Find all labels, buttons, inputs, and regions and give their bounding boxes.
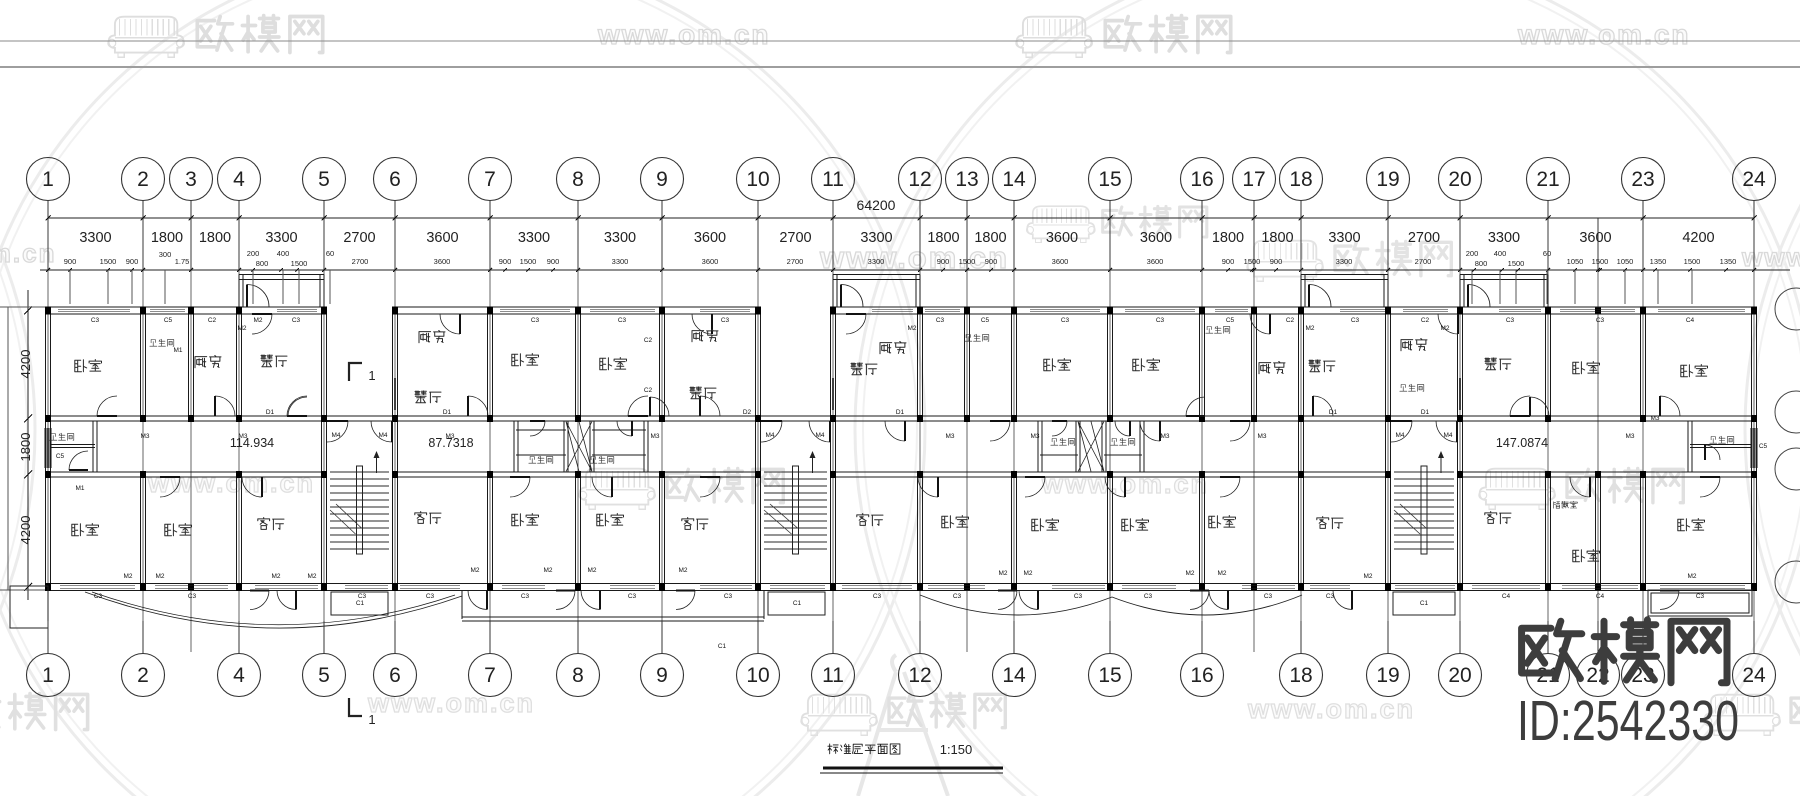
svg-text:C5: C5	[1226, 317, 1235, 324]
interior wall on grid 11	[830, 314, 832, 585]
room label 厨房	[1259, 362, 1285, 374]
svg-text:14: 14	[1002, 168, 1026, 191]
svg-text:6: 6	[389, 168, 401, 191]
svg-text:C3: C3	[521, 593, 530, 600]
svg-text:16: 16	[1190, 168, 1213, 191]
room label 卧室	[1032, 519, 1059, 531]
svg-text:3: 3	[185, 168, 197, 191]
svg-text:D2: D2	[743, 409, 752, 416]
svg-text:C3: C3	[724, 593, 733, 600]
extension lines from secondary dim to wall	[69, 270, 71, 304]
svg-text:C3: C3	[721, 317, 730, 324]
svg-text:M3: M3	[1257, 433, 1266, 440]
svg-text:C2: C2	[1421, 317, 1430, 324]
interior wall on grid 12	[917, 314, 919, 416]
room label 卧室	[1044, 359, 1071, 371]
lower mid wall	[48, 471, 324, 473]
room label 卧室	[75, 360, 102, 372]
svg-text:18: 18	[1289, 664, 1312, 687]
room label 卧室	[1573, 362, 1600, 374]
interior wall on grid 7	[487, 314, 489, 416]
svg-text:D1: D1	[443, 409, 452, 416]
interior wall on grid 6	[392, 314, 394, 585]
svg-text:3300: 3300	[1328, 230, 1360, 246]
svg-text:M2: M2	[907, 325, 916, 332]
svg-text:M2: M2	[470, 567, 479, 574]
room label 客厅	[857, 514, 883, 526]
room label 厨房	[880, 342, 906, 354]
svg-text:C5: C5	[56, 453, 65, 460]
mid wall D1	[48, 415, 1754, 417]
watermark sofa bottom-center	[801, 695, 877, 736]
svg-text:M2: M2	[543, 567, 552, 574]
room label 卧室	[512, 354, 539, 366]
bottom scallop arcs G12-G18	[920, 595, 1302, 615]
bathrooms unit B	[513, 421, 515, 472]
svg-text:M3: M3	[945, 433, 954, 440]
svg-text:19: 19	[1376, 168, 1399, 191]
svg-text:M3: M3	[140, 433, 149, 440]
svg-text:2700: 2700	[343, 230, 375, 246]
staircase 2	[764, 471, 827, 473]
svg-text:3300: 3300	[604, 230, 636, 246]
bathroom unit A left	[92, 421, 94, 472]
svg-text:C3: C3	[188, 593, 197, 600]
svg-text:16: 16	[1190, 664, 1213, 687]
svg-text:M1: M1	[75, 485, 84, 492]
watermark sofa row2 mid	[1027, 206, 1096, 242]
room label 卧室	[1573, 550, 1600, 562]
staircase 3	[1394, 471, 1454, 473]
top rule 2	[0, 66, 1800, 68]
balcony top G20-G21	[1460, 274, 1548, 276]
svg-text:4200: 4200	[18, 516, 33, 545]
svg-text:D1: D1	[266, 409, 275, 416]
room label 客厅	[1317, 517, 1343, 529]
columns bottom wall	[45, 583, 51, 591]
svg-text:www.om.cn: www.om.cn	[1247, 694, 1415, 724]
svg-text:M2: M2	[1440, 325, 1449, 332]
balcony top G18-G19	[1301, 274, 1388, 276]
outer left wall	[45, 307, 47, 591]
svg-text:1500: 1500	[520, 257, 537, 266]
svg-text:1500: 1500	[1592, 257, 1609, 266]
interior wall on grid 5	[321, 314, 323, 585]
svg-text:D1: D1	[896, 409, 905, 416]
svg-text:1800: 1800	[18, 433, 33, 462]
room label 客厅	[682, 518, 708, 530]
svg-text:M2: M2	[587, 567, 596, 574]
svg-text:1050: 1050	[1567, 257, 1584, 266]
svg-text:C3: C3	[94, 593, 103, 600]
svg-text:3600: 3600	[1140, 230, 1172, 246]
svg-text:1050: 1050	[1617, 257, 1634, 266]
svg-text:3300: 3300	[612, 257, 629, 266]
interior wall on grid 3	[188, 314, 190, 416]
small room label 卫生间	[1051, 438, 1075, 445]
svg-text:1: 1	[42, 664, 54, 687]
svg-text:C3: C3	[873, 593, 882, 600]
room label 餐厅	[261, 355, 287, 367]
svg-text:C3: C3	[91, 317, 100, 324]
room label 卧室	[1681, 365, 1708, 377]
interior door arcs mid wall	[97, 396, 117, 416]
room label 厨房	[419, 331, 445, 343]
svg-text:14: 14	[1002, 664, 1026, 687]
svg-text:1500: 1500	[100, 257, 117, 266]
svg-text:D1: D1	[1421, 409, 1430, 416]
svg-text:M2: M2	[1305, 325, 1314, 332]
small room label 卫生间	[1400, 384, 1424, 391]
interior wall on grid 16	[1199, 314, 1201, 416]
columns top wall	[45, 307, 51, 315]
svg-text:1: 1	[42, 168, 54, 191]
svg-text:900: 900	[985, 257, 998, 266]
svg-text:2: 2	[137, 168, 149, 191]
svg-text:64200: 64200	[857, 197, 896, 213]
svg-text:C5: C5	[164, 317, 173, 324]
svg-text:C1: C1	[718, 643, 727, 650]
balcony box bottom left edge	[10, 586, 48, 628]
svg-text:C4: C4	[1502, 593, 1511, 600]
svg-text:900: 900	[64, 257, 77, 266]
C2 windows on stair shaft walls	[392, 378, 394, 410]
svg-text:1500: 1500	[1684, 257, 1701, 266]
svg-text:1: 1	[368, 368, 375, 383]
svg-text:147.0874: 147.0874	[1496, 436, 1548, 450]
svg-text:M2: M2	[1363, 573, 1372, 580]
svg-text:1800: 1800	[1261, 230, 1293, 246]
svg-text:M2: M2	[998, 570, 1007, 577]
extension lines below secondary dim	[68, 268, 72, 272]
room label 卧室	[1122, 519, 1149, 531]
svg-text:C5: C5	[981, 317, 990, 324]
room label 餐厅	[1309, 360, 1335, 372]
svg-text:7: 7	[484, 664, 496, 687]
svg-text:24: 24	[1742, 664, 1766, 687]
svg-text:3300: 3300	[868, 257, 885, 266]
svg-text:3300: 3300	[79, 230, 111, 246]
grid bubbles bottom row	[27, 654, 70, 697]
svg-text:10: 10	[746, 664, 769, 687]
room label 客厅	[258, 518, 284, 530]
bathroom cap walls unit C	[1040, 454, 1078, 456]
small room label 卫生间	[1206, 326, 1230, 333]
kitchen doors M2 top	[252, 314, 272, 334]
svg-text:C3: C3	[953, 593, 962, 600]
svg-text:11: 11	[822, 664, 844, 687]
interior wall on grid 10	[755, 314, 757, 585]
svg-text:1500: 1500	[291, 259, 308, 268]
svg-text:C3: C3	[426, 593, 435, 600]
svg-text:M3: M3	[238, 433, 247, 440]
svg-text:M2: M2	[307, 573, 316, 580]
svg-text:M2: M2	[253, 317, 262, 324]
columns lower mid wall	[45, 471, 51, 478]
interior wall on grid 4	[236, 314, 238, 416]
room label 卧室	[600, 358, 627, 370]
interior wall on grid 18	[1298, 314, 1300, 585]
svg-text:9: 9	[656, 168, 668, 191]
small room label 卫生间	[529, 456, 553, 463]
svg-text:C3: C3	[292, 317, 301, 324]
room label 卧室	[1133, 359, 1160, 371]
svg-text:C1: C1	[1420, 600, 1429, 607]
svg-text:21: 21	[1536, 168, 1559, 191]
svg-text:800: 800	[256, 259, 269, 268]
svg-text:C3: C3	[1596, 317, 1605, 324]
svg-text:3300: 3300	[1336, 257, 1353, 266]
svg-text:900: 900	[499, 257, 512, 266]
svg-text:5: 5	[318, 664, 330, 687]
svg-text:M4: M4	[1443, 432, 1452, 439]
bathroom partition unit D	[1690, 444, 1751, 446]
svg-text:2700: 2700	[352, 257, 369, 266]
svg-text:C3: C3	[1264, 593, 1273, 600]
svg-text:12: 12	[908, 664, 931, 687]
bathroom partition walls unit A	[51, 444, 95, 446]
interior wall on grid 22	[1595, 478, 1597, 585]
vertical grid lines	[47, 218, 49, 270]
interior wall on grid 9	[659, 314, 661, 416]
svg-text:800: 800	[1475, 259, 1488, 268]
svg-text:D1: D1	[1329, 409, 1338, 416]
small room label 卫生间	[590, 456, 614, 463]
svg-text:3600: 3600	[694, 230, 726, 246]
bottom exit doors M2	[468, 591, 487, 610]
svg-text:1800: 1800	[151, 230, 183, 246]
svg-text:M2: M2	[1023, 570, 1032, 577]
outer right wall	[1751, 307, 1753, 591]
svg-text:M4: M4	[378, 432, 387, 439]
room label 卧室	[1209, 516, 1236, 528]
interior door arcs lower wall	[160, 477, 180, 497]
svg-text:www.om.cn: www.om.cn	[597, 19, 771, 50]
interior wall on grid 21	[1545, 314, 1547, 416]
room label 卧室	[597, 514, 624, 526]
svg-text:M4: M4	[1395, 432, 1404, 439]
grid bubbles top row	[27, 158, 70, 201]
svg-text:M2: M2	[271, 573, 280, 580]
svg-text:6: 6	[389, 664, 401, 687]
svg-text:C2: C2	[208, 317, 217, 324]
svg-text:15: 15	[1098, 664, 1121, 687]
room label 客厅	[415, 512, 441, 524]
svg-text:7: 7	[484, 168, 496, 191]
watermark big circles	[0, 0, 925, 796]
doors above mid wall	[288, 397, 307, 416]
room label 厨房	[195, 356, 221, 368]
watermark compass at bottom center	[858, 655, 948, 796]
room label 卧室	[942, 516, 969, 528]
watermark sofa+logo top-middle	[1016, 17, 1092, 58]
svg-text:4: 4	[233, 168, 245, 191]
svg-text:400: 400	[277, 249, 290, 258]
bathrooms unit C	[1037, 421, 1039, 472]
svg-text:3600: 3600	[1147, 257, 1164, 266]
watermark sofa mid-center	[579, 469, 655, 510]
windows C3 top wall	[58, 306, 130, 308]
window C5 left wall	[44, 428, 46, 468]
svg-text:200: 200	[247, 249, 260, 258]
drawing title 标准层平面图	[828, 744, 900, 754]
svg-text:3600: 3600	[1046, 230, 1078, 246]
svg-text:3600: 3600	[702, 257, 719, 266]
svg-text:C4: C4	[1686, 317, 1695, 324]
bottom balcony band G7-G10	[462, 616, 764, 618]
svg-text:12: 12	[908, 168, 931, 191]
svg-text:19: 19	[1376, 664, 1399, 687]
bathroom partition walls unit B	[516, 429, 566, 431]
staircase 1	[330, 471, 389, 473]
outer top wall (open at stair bays 1 and 2)	[48, 306, 324, 308]
windows bottom wall	[60, 583, 135, 585]
svg-text:M3: M3	[1160, 433, 1169, 440]
room label 卧室	[165, 524, 192, 536]
svg-text:www.om.cn: www.om.cn	[367, 688, 535, 718]
svg-text:M2: M2	[1185, 570, 1194, 577]
svg-text:900: 900	[1270, 257, 1283, 266]
small room label 卫生间	[1111, 438, 1135, 445]
svg-text:3600: 3600	[434, 257, 451, 266]
svg-text:2700: 2700	[787, 257, 804, 266]
svg-text:3300: 3300	[1488, 230, 1520, 246]
svg-text:2700: 2700	[1408, 230, 1440, 246]
svg-text:C2: C2	[644, 387, 653, 394]
top rule 1	[0, 40, 1800, 42]
svg-text:M2: M2	[1687, 573, 1696, 580]
svg-text:1800: 1800	[974, 230, 1006, 246]
room label 厨房	[1401, 339, 1427, 351]
svg-text:M3: M3	[1030, 433, 1039, 440]
svg-text:15: 15	[1098, 168, 1121, 191]
svg-text:C2: C2	[644, 337, 653, 344]
svg-text:900: 900	[126, 257, 139, 266]
interior wall on grid 23	[1640, 314, 1642, 416]
svg-text:C3: C3	[1351, 317, 1360, 324]
svg-text:17: 17	[1242, 168, 1265, 191]
svg-text:20: 20	[1448, 664, 1471, 687]
svg-text:11: 11	[822, 168, 844, 191]
svg-text:4: 4	[233, 664, 245, 687]
svg-text:1: 1	[368, 712, 375, 727]
svg-text:20: 20	[1448, 168, 1471, 191]
svg-text:2700: 2700	[1415, 257, 1432, 266]
svg-text:1350: 1350	[1650, 257, 1667, 266]
svg-text:C2: C2	[1286, 317, 1295, 324]
svg-text:1500: 1500	[959, 257, 976, 266]
svg-text:C5: C5	[1759, 443, 1768, 450]
svg-text:3600: 3600	[1579, 230, 1611, 246]
balcony top G4-G5	[239, 274, 324, 276]
svg-text:M4: M4	[765, 432, 774, 439]
svg-text:M4: M4	[331, 432, 340, 439]
svg-text:3600: 3600	[1052, 257, 1069, 266]
svg-text:C3: C3	[1144, 593, 1153, 600]
svg-text:1.75: 1.75	[175, 257, 190, 266]
svg-text:18: 18	[1289, 168, 1312, 191]
title underline	[823, 767, 1003, 770]
room label 餐厅	[851, 363, 877, 375]
svg-text:3300: 3300	[518, 230, 550, 246]
room label 客厅	[1485, 512, 1511, 524]
svg-text:60: 60	[326, 249, 334, 258]
svg-text:8: 8	[572, 664, 584, 687]
balcony box C1 under stair3	[1393, 592, 1455, 615]
left vertical extension stubs	[7, 307, 9, 591]
svg-text:1800: 1800	[1212, 230, 1244, 246]
svg-text:M3: M3	[1650, 415, 1659, 422]
svg-text:www.om.cn: www.om.cn	[1741, 242, 1800, 272]
svg-text:1500: 1500	[1508, 259, 1525, 268]
site logo 欧模网	[1522, 620, 1727, 683]
svg-text:3300: 3300	[265, 230, 297, 246]
svg-text:1800: 1800	[927, 230, 959, 246]
balcony box C1 under stair1	[331, 592, 388, 615]
top dimension line total 64200	[48, 217, 1754, 219]
svg-text:M1: M1	[173, 347, 182, 354]
small room label 卫生间	[50, 433, 74, 440]
room label 卧室	[72, 524, 99, 536]
small room label 卫生间	[1710, 436, 1734, 443]
svg-text:C3: C3	[1074, 593, 1083, 600]
svg-text:M3: M3	[650, 433, 659, 440]
svg-text:24: 24	[1742, 168, 1766, 191]
svg-text:C3: C3	[618, 317, 627, 324]
balcony box bottom right	[1648, 590, 1752, 616]
svg-text:1800: 1800	[199, 230, 231, 246]
svg-text:1350: 1350	[1720, 257, 1737, 266]
svg-text:400: 400	[1494, 249, 1507, 258]
interior wall on grid 20	[1457, 314, 1459, 585]
svg-text:C3: C3	[936, 317, 945, 324]
interior wall on grid 13	[964, 314, 966, 416]
svg-text:C1: C1	[356, 600, 365, 607]
svg-text:C3: C3	[1061, 317, 1070, 324]
svg-text:C3: C3	[1156, 317, 1165, 324]
balcony box C1 under stair2	[768, 592, 825, 615]
svg-text:ID:2542330: ID:2542330	[1517, 689, 1739, 753]
small room label 卫生间	[150, 339, 174, 346]
small room label 卫生间	[965, 334, 989, 341]
svg-text:60: 60	[1543, 249, 1551, 258]
svg-text:3300: 3300	[860, 230, 892, 246]
svg-text:M2: M2	[123, 573, 132, 580]
svg-text:C3: C3	[1696, 593, 1705, 600]
right side grid bubbles (half visible)	[1775, 288, 1800, 330]
svg-text:4200: 4200	[18, 350, 33, 379]
interior wall on grid 2	[140, 314, 142, 416]
svg-text:www.om.cn: www.om.cn	[1517, 19, 1691, 50]
svg-text:2: 2	[137, 664, 149, 687]
bathroom unit D right	[1687, 421, 1689, 472]
watermark sofa+logo top-left	[108, 17, 184, 58]
svg-text:M3: M3	[445, 433, 454, 440]
section mark 1 bottom	[349, 698, 362, 716]
svg-text:10: 10	[746, 168, 769, 191]
svg-text:M2: M2	[155, 573, 164, 580]
watermark sofa bottom-far-right	[1704, 695, 1780, 736]
svg-text:C3: C3	[358, 593, 367, 600]
svg-text:23: 23	[1631, 168, 1654, 191]
secondary dimension line	[40, 269, 1790, 271]
bathroom partition walls unit C	[1052, 421, 1067, 436]
svg-text:C3: C3	[1326, 593, 1335, 600]
svg-text:3600: 3600	[426, 230, 458, 246]
room label 餐厅	[1485, 358, 1511, 370]
svg-text:9: 9	[656, 664, 668, 687]
room label 餐厅	[690, 387, 716, 399]
